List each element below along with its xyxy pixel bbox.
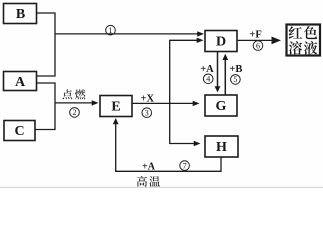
box red solution bbox=[287, 25, 321, 56]
box H bbox=[205, 136, 238, 157]
circled 3 bbox=[142, 108, 152, 118]
svg-text:E: E bbox=[111, 100, 120, 115]
svg-text:+B: +B bbox=[229, 64, 242, 75]
box A bbox=[4, 72, 37, 91]
wire vertical branch to D and H bbox=[170, 40, 200, 143]
svg-text:D: D bbox=[216, 35, 226, 50]
svg-text:3: 3 bbox=[145, 109, 149, 118]
text se (color) bbox=[304, 26, 317, 39]
svg-text:7: 7 bbox=[183, 161, 187, 170]
scan noise bottom edge bbox=[0, 187, 323, 188]
text hong (red) bbox=[289, 26, 302, 39]
label wen (high-temp-2) bbox=[149, 176, 160, 187]
svg-text:+X: +X bbox=[141, 93, 155, 104]
label dian (ignite-1) bbox=[62, 89, 72, 99]
text ye (liquid) bbox=[304, 41, 317, 54]
box B bbox=[4, 4, 37, 24]
circled 5 bbox=[231, 75, 241, 85]
wire E output to G bbox=[133, 102, 197, 104]
box G bbox=[205, 95, 237, 116]
svg-text:A: A bbox=[15, 75, 26, 90]
wire bus B/A to junction bbox=[37, 13, 56, 76]
svg-text:G: G bbox=[216, 99, 227, 114]
svg-text:+F: +F bbox=[249, 29, 261, 40]
svg-text:1: 1 bbox=[109, 26, 113, 35]
svg-text:4: 4 bbox=[206, 75, 210, 84]
svg-text:5: 5 bbox=[233, 75, 237, 84]
circled 1 bbox=[106, 25, 116, 35]
arrow up into E bbox=[113, 118, 119, 124]
wire D to red solution bbox=[238, 39, 273, 41]
box E bbox=[100, 96, 132, 117]
arrow G up to D bbox=[224, 58, 226, 95]
label ran (ignite-2) bbox=[75, 89, 85, 99]
circled 7 bbox=[180, 161, 190, 171]
svg-text:2: 2 bbox=[73, 108, 77, 117]
box D bbox=[205, 31, 237, 52]
svg-text:B: B bbox=[16, 7, 25, 22]
circled 2 bbox=[70, 108, 80, 118]
svg-text:H: H bbox=[216, 140, 227, 155]
box C bbox=[4, 121, 35, 141]
svg-text:6: 6 bbox=[256, 41, 260, 50]
label gao (high-temp-1) bbox=[137, 176, 147, 187]
arrow D down to G bbox=[217, 52, 219, 87]
wire line 1 to D bbox=[55, 33, 201, 35]
svg-text:+A: +A bbox=[200, 64, 214, 75]
wire H down and left to under E bbox=[116, 123, 221, 171]
wire bus A/C to junction bbox=[35, 83, 55, 130]
circled 4 bbox=[203, 74, 213, 84]
wire ignite line to E bbox=[55, 102, 95, 104]
text rong (dissolve) bbox=[289, 41, 302, 54]
svg-text:+A: +A bbox=[142, 162, 156, 173]
circled 6 bbox=[253, 41, 263, 51]
svg-text:C: C bbox=[14, 124, 24, 139]
